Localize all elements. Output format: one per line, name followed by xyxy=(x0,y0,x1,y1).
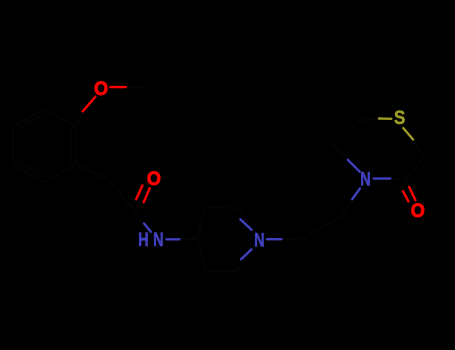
bond C3=O2 parallel (oxygen half) xyxy=(403,191,409,201)
bond ring-B to CH2 benzylic xyxy=(76,164,111,182)
svg-text:O: O xyxy=(94,77,108,99)
bond C3 to O2 double parallel (carbon half) xyxy=(400,185,403,192)
bond C3 to O2 double main (carbon half) xyxy=(405,180,409,187)
bond C1 to O1 double main (carbon half) xyxy=(135,202,144,212)
svg-text:S: S xyxy=(394,106,405,128)
svg-text:O: O xyxy=(147,168,161,190)
svg-text:N: N xyxy=(153,229,163,250)
bond CH2b to thiomorpholinone N (carbon half) xyxy=(342,199,352,216)
benzene inner aromatic line 2 xyxy=(18,162,42,176)
thiomorpholinone C2 to S (carbon half) and C2-C3 xyxy=(390,140,424,181)
bond ring-A to O ether (carbon half) xyxy=(76,111,83,127)
dark carbon skeleton (nearly invisible) xyxy=(13,87,424,271)
bond amide N to C1 (nitrogen half) xyxy=(144,224,151,232)
benzene ring xyxy=(13,109,76,182)
bond amide N to piperidine C4 (carbon half) xyxy=(180,237,198,240)
bond ether O to CH3 (oxygen half) xyxy=(110,86,125,88)
benzene inner aromatic line 1 xyxy=(70,131,72,160)
bond CH2a to CH2b xyxy=(303,216,342,239)
blue bonds xyxy=(144,160,390,259)
bond C1=O1 parallel (oxygen half) xyxy=(136,186,142,200)
thiomorpholinone ring dark edges C5-C6 xyxy=(333,119,379,160)
bond S to C2 (sulfur half) xyxy=(403,128,413,139)
bond S to C6 (sulfur half) xyxy=(379,117,391,120)
bond ether O to ring A (oxygen half) xyxy=(83,97,96,112)
bond O to CH3 (carbon half) xyxy=(126,86,144,89)
bond C1 to amide N (carbon half) xyxy=(135,212,144,224)
benzene inner aromatic line 3 xyxy=(18,115,42,129)
bond piperidine N to C2 (nitrogen half) xyxy=(240,219,251,229)
svg-text:H: H xyxy=(138,229,148,250)
bond C1 to O1 double parallel (carbon half) xyxy=(131,199,137,206)
bond thiomorpholinone N to C5 (nitrogen half) xyxy=(348,160,360,172)
bond piperidine N to chain CH2a (carbon half) xyxy=(281,237,303,240)
bond amide N to C4 (nitrogen half) xyxy=(167,238,180,240)
bond thiomorpholinone N to CH2b (nitrogen half) xyxy=(352,188,360,199)
piperidine ring dark edges xyxy=(197,207,259,271)
bond CH2 benzylic to C1 carbonyl xyxy=(111,182,135,212)
bond piperidine N to CH2a (nitrogen half) xyxy=(267,238,281,240)
svg-text:N: N xyxy=(254,230,264,251)
bond piperidine N to C6 (nitrogen half) xyxy=(241,249,252,259)
svg-text:O: O xyxy=(411,199,425,221)
bond C3=O2 main (oxygen half) xyxy=(409,187,415,200)
red bonds xyxy=(83,87,416,202)
bond C1=O1 main (oxygen half) xyxy=(144,188,150,202)
olive sulfur bonds xyxy=(379,119,413,140)
svg-text:N: N xyxy=(360,169,370,190)
bond thiomorpholinone N to C3 (nitrogen half) xyxy=(374,177,391,179)
